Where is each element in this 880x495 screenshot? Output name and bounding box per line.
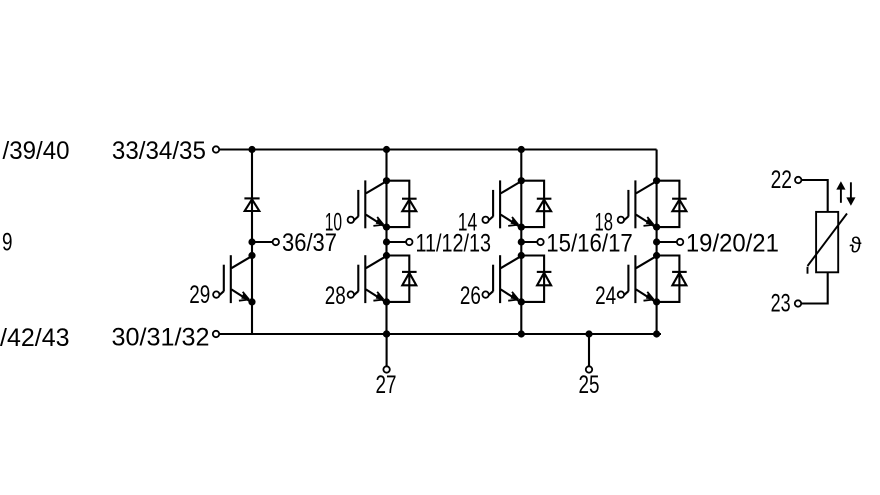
label theta [850,233,862,258]
svg-text:29: 29 [189,281,210,309]
wire to terminal 36/37 [252,241,273,243]
diode D3 [672,199,687,212]
thermistor R (NTC) body [816,212,838,272]
diode D6 [672,272,687,285]
terminal 36/37 [273,239,279,245]
label 18 [595,209,614,237]
transistor Q7 (29) [213,255,253,303]
terminal 25 [586,366,592,372]
node leg 1 top collector [383,177,390,184]
label /42/43 (cut) [0,324,70,352]
diode D1 [402,199,417,212]
label 30/31/32 [112,324,210,352]
node leg 2 top emitter [518,224,525,231]
svg-text:9: 9 [2,229,13,257]
svg-text:15/16/17: 15/16/17 [546,230,633,258]
terminal 30/31/32 [213,331,219,337]
label 14 [458,209,478,237]
svg-text:14: 14 [458,209,478,237]
label 15/16/17 [546,230,633,258]
label 11/12/13 [416,230,492,258]
svg-text:10: 10 [325,209,342,237]
node terminal 27 at DC- [383,330,390,337]
node leg 1 at DC- [383,330,390,337]
node leg 3 bottom collector [653,252,660,259]
wire freewheel loop top leg 3 [657,181,680,227]
node leg 2 at DC- [518,330,525,337]
diode D7 brake [244,198,259,211]
wire chopper branch [251,150,253,335]
node 36/37 [248,238,255,245]
svg-text:25: 25 [579,371,600,399]
terminal 19/20/21 [677,239,683,245]
svg-text:11/12/13: 11/12/13 [416,230,492,258]
node chopper at DC+ [248,146,255,153]
node terminal 25 at DC- [585,330,592,337]
label 28 [325,282,346,310]
node leg 2 bottom collector [518,252,525,259]
svg-text:24: 24 [595,282,616,310]
transistor Q3 (18) [618,180,658,228]
label 36/37 [282,229,337,257]
label 24 [595,282,616,310]
wire to terminal 11/12/13 [387,241,407,243]
label 27 [376,371,397,399]
node leg 2 bottom emitter [518,298,525,305]
node leg 3 top emitter [653,224,660,231]
wire phase leg 2 [520,150,522,335]
svg-text:28: 28 [325,282,346,310]
svg-text:23: 23 [771,290,791,318]
wire phase leg 1 [385,150,387,335]
terminal 23 [795,300,801,306]
label 26 [460,282,481,310]
terminal 27 [383,366,389,372]
label 23 [771,290,791,318]
wire freewheel loop top leg 1 [387,181,410,227]
wire stub terminal 27 [386,334,388,366]
diode D4 [402,272,417,285]
wire terminal 22 to thermistor [802,180,828,212]
wire to terminal 19/20/21 [657,241,677,243]
svg-text:26: 26 [460,282,481,310]
terminal 22 [795,177,801,183]
wire stub terminal 25 [588,334,590,366]
node chopper emitter [248,298,255,305]
wire thermistor to terminal 23 [801,272,827,303]
node leg 3 at DC- [653,330,660,337]
wire phase leg 3 [656,150,658,335]
arrow up (temperature) [836,181,845,203]
diode D5 [537,272,552,285]
wire DC- rail [219,333,661,335]
thermistor diagonal [808,214,848,274]
node leg 3 top collector [653,177,660,184]
wire freewheel loop bottom leg 3 [657,256,680,302]
node leg 2 top collector [518,177,525,184]
node output leg 3 [653,238,660,245]
wire DC+ rail [219,148,656,150]
label 22 [771,166,792,194]
transistor Q6 (24) [618,255,658,303]
label 29 [189,281,210,309]
label 25 [579,371,600,399]
node output leg 2 [518,238,525,245]
node leg 1 bottom collector [383,252,390,259]
svg-text:19/20/21: 19/20/21 [686,230,779,258]
svg-text:27: 27 [376,371,397,399]
node leg 3 bottom emitter [653,298,660,305]
svg-text:22: 22 [771,166,792,194]
node leg 1 top emitter [383,224,390,231]
svg-text:/42/43: /42/43 [0,324,70,352]
node leg 1 at DC+ [383,146,390,153]
transistor Q2 (14) [482,180,522,228]
transistor Q4 (28) [348,255,388,303]
node leg 2 at DC+ [518,146,525,153]
transistor Q1 (10) [348,180,388,228]
node output leg 1 [383,238,390,245]
terminal 33/34/35 [213,146,219,152]
node chopper collector [248,252,255,259]
terminal 15/16/17 [537,239,543,245]
svg-text:33/34/35: 33/34/35 [112,137,206,165]
wire freewheel loop bottom leg 1 [387,256,410,302]
svg-text:30/31/32: 30/31/32 [112,324,210,352]
svg-text:ϑ: ϑ [850,233,862,258]
node leg 1 bottom emitter [383,298,390,305]
wire freewheel loop bottom leg 2 [521,256,544,302]
label 33/34/35 [112,137,206,165]
svg-text:18: 18 [595,209,614,237]
wire to terminal 15/16/17 [521,241,537,243]
label /39/40 (cut) [3,137,70,165]
arrow down (resistance) [846,182,855,206]
terminal 11/12/13 [406,239,412,245]
diode D2 [537,199,552,212]
wire freewheel loop top leg 2 [521,181,544,227]
transistor Q5 (26) [482,255,522,303]
svg-text:/39/40: /39/40 [3,137,70,165]
label 19/20/21 [686,230,779,258]
label 10 [325,209,342,237]
label 9 (cut) [2,229,13,257]
